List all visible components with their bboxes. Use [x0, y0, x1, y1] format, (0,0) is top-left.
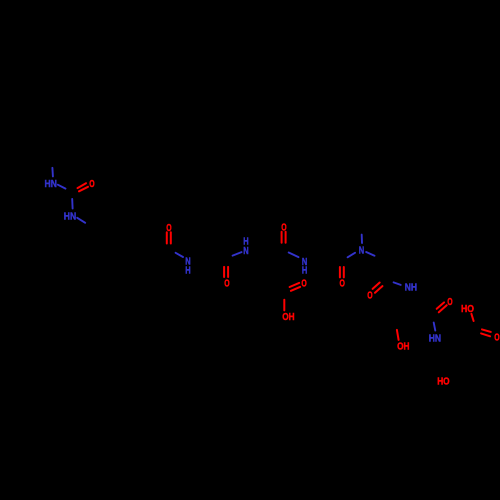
svg-text:O: O	[367, 291, 373, 302]
wire N-CH3 stub urea bottom	[77, 218, 85, 223]
wire C-N amide6	[434, 323, 436, 331]
svg-text:N: N	[359, 246, 364, 257]
wire N-C ring right	[366, 252, 374, 256]
wire C=O prepro double bond	[339, 267, 341, 277]
wire C=O urea double bond	[78, 183, 87, 188]
wire C-N amide2	[233, 252, 242, 256]
svg-text:H: H	[302, 265, 307, 276]
wire N-C urea	[58, 185, 66, 189]
svg-text:O: O	[447, 297, 453, 308]
wire C-N amide5	[394, 282, 401, 285]
wire C=O asp backbone double bond	[281, 232, 283, 243]
wire C-N amide3	[289, 253, 299, 258]
wire C=O thr amide double bond	[437, 302, 444, 308]
svg-text:O: O	[301, 279, 307, 290]
svg-text:NH: NH	[405, 283, 417, 294]
wire C=O cterm double bond	[482, 329, 491, 332]
wire C=O acetyl double bond	[166, 232, 168, 243]
svg-text:O: O	[340, 279, 346, 290]
svg-text:HN: HN	[64, 212, 76, 223]
svg-text:O: O	[224, 279, 230, 290]
svg-text:OH: OH	[397, 342, 409, 353]
wire C-N pro amide	[348, 253, 355, 257]
wire C=O asp side double bond	[290, 283, 300, 287]
wire C-N amide1	[176, 253, 183, 257]
wire C-N urea lower	[71, 199, 73, 209]
svg-text:OH: OH	[282, 312, 294, 323]
wire O-C cterm	[471, 314, 473, 321]
svg-text:O: O	[89, 179, 95, 190]
svg-text:O: O	[494, 333, 500, 344]
svg-text:HN: HN	[429, 334, 441, 345]
svg-text:HO: HO	[437, 377, 450, 388]
wire C=O gly double bond	[223, 267, 225, 277]
wire N-CH3 stub urea top	[51, 168, 54, 177]
wire C-OH asp side	[283, 300, 285, 311]
svg-text:HN: HN	[45, 179, 57, 190]
wire N-C ring up	[361, 235, 363, 243]
svg-text:N: N	[243, 246, 248, 257]
svg-text:H: H	[185, 266, 190, 277]
wire C-OH thr side	[397, 330, 399, 340]
wire C=O pro amide double bond	[373, 283, 380, 289]
